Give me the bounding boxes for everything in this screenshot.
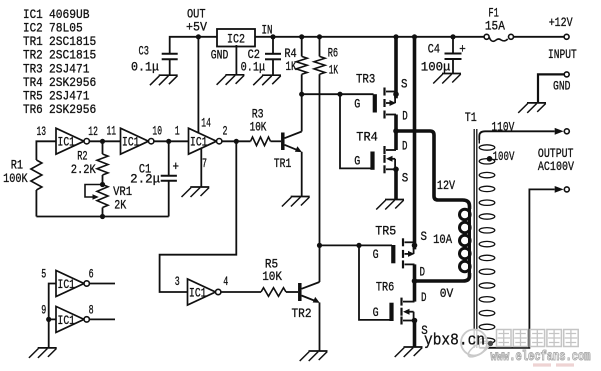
- svg-text:8: 8: [89, 302, 94, 317]
- svg-text:IN: IN: [262, 22, 273, 37]
- svg-text:AC100V: AC100V: [538, 159, 574, 174]
- svg-text:100K: 100K: [3, 171, 28, 186]
- parts list row TR6 2SK2956: [23, 102, 96, 117]
- svg-text:IC1: IC1: [58, 277, 76, 292]
- svg-text:+12V: +12V: [549, 15, 573, 30]
- terminal GND input: [564, 72, 569, 77]
- svg-text:TR6: TR6: [23, 102, 43, 117]
- svg-text:IC1: IC1: [58, 135, 76, 150]
- node IN / C2 junction: [270, 34, 275, 39]
- svg-text:C3: C3: [139, 44, 149, 59]
- svg-text:G: G: [373, 247, 379, 262]
- wire thick rail B (+12V to TR5 source): [413, 35, 417, 249]
- resistor R4: [296, 37, 307, 132]
- wire fuse to +12V terminal: [514, 36, 564, 38]
- wire +5V rail from C3 corner to IC2: [170, 37, 217, 54]
- svg-text:TR6: TR6: [376, 280, 394, 295]
- watermark elecfans logo: [461, 330, 493, 360]
- svg-text:S: S: [421, 229, 428, 244]
- svg-text:0.1μ: 0.1μ: [131, 60, 159, 75]
- arrow output terminal 2: [555, 186, 564, 193]
- node TR5 source: [412, 243, 418, 249]
- regulator IC2 box: [217, 29, 255, 47]
- wire gate bracket down to TR4: [340, 94, 371, 168]
- transistor TR2: [300, 282, 320, 351]
- wire gate D output to R5: [221, 291, 261, 293]
- capacitor C4: [445, 37, 462, 74]
- svg-text:10K: 10K: [250, 119, 267, 134]
- ground C4: [433, 74, 461, 84]
- svg-text:TR4: TR4: [356, 129, 378, 144]
- terminal output 1: [564, 129, 569, 134]
- capacitor C1: [161, 141, 177, 216]
- wire thick TR4 drain from node: [394, 131, 398, 150]
- svg-text:12: 12: [88, 124, 98, 139]
- resistor R3: [251, 137, 282, 146]
- svg-text:14: 14: [201, 115, 211, 130]
- wire TR5 TR6 gate bus: [320, 244, 393, 246]
- node +12V rail A top: [393, 34, 398, 39]
- ground TR6 source: [395, 347, 423, 357]
- wire thick drain node to transformer 0V feed: [415, 273, 470, 281]
- svg-text:0.1μ: 0.1μ: [241, 59, 266, 74]
- svg-text:G: G: [354, 97, 360, 112]
- wire pin2 node to gate D input: [160, 141, 237, 292]
- transistor TR1: [283, 132, 302, 197]
- wire thick TR3 drain to node: [394, 115, 398, 132]
- terminal output 2: [564, 187, 569, 192]
- svg-text:GND: GND: [553, 79, 571, 94]
- ground C3: [150, 75, 178, 85]
- potentiometer VR1: [85, 185, 108, 217]
- wire gate A output to gate B: [90, 140, 121, 142]
- svg-text:TR2: TR2: [292, 306, 312, 321]
- node TR3 source: [393, 91, 399, 97]
- svg-text:R6: R6: [328, 46, 338, 61]
- wire pin 14 to +5V: [197, 37, 199, 134]
- node R6 top: [317, 34, 322, 39]
- svg-text:+: +: [459, 42, 466, 57]
- node pin2 junction: [234, 139, 239, 144]
- wire gate bracket down to TR6: [359, 245, 391, 320]
- resistor R1: [31, 160, 42, 217]
- svg-text:3: 3: [175, 274, 180, 289]
- svg-text:15A: 15A: [485, 18, 505, 33]
- svg-text:TR5: TR5: [375, 224, 396, 239]
- svg-text:11: 11: [107, 124, 117, 139]
- op-amp/inverter IC1 gate D (pins 3-4): [188, 279, 221, 305]
- ground pin 7: [182, 187, 210, 197]
- svg-text:ybx8.cn: ybx8.cn: [424, 331, 485, 350]
- terminal +12V: [564, 34, 569, 39]
- wire GND terminal to ground: [538, 74, 564, 103]
- svg-text:D: D: [420, 265, 426, 280]
- svg-text:+5V: +5V: [186, 19, 207, 34]
- transformer T1 primary winding: [460, 206, 471, 274]
- parts list row TR2 2SC1815: [23, 48, 96, 63]
- node C1 junction: [166, 139, 171, 144]
- op-amp/inverter IC1 gate C (pins 1-2): [189, 128, 222, 154]
- svg-text:100V: 100V: [493, 149, 515, 164]
- watermark CJK text 电子发烧友: [497, 330, 579, 347]
- svg-text:1K: 1K: [286, 59, 297, 74]
- svg-text:10A: 10A: [433, 232, 452, 247]
- svg-text:10K: 10K: [262, 269, 282, 284]
- wire feedback bottom rail: [36, 216, 168, 218]
- op-amp/inverter IC1 gate A (pins 13-12): [56, 128, 89, 154]
- svg-text:+: +: [173, 159, 180, 174]
- node gate bracket TR3/TR4: [337, 92, 342, 97]
- svg-text:D: D: [402, 139, 408, 154]
- ground IC2: [217, 75, 245, 85]
- wire gate C output: [222, 140, 250, 142]
- wire thick TR6 drain from node: [413, 281, 417, 302]
- node gate bracket TR5/TR6: [356, 243, 361, 248]
- ground TR2 emitter: [300, 351, 328, 361]
- wire TR3 TR4 gate bus: [302, 93, 374, 95]
- op-amp/inverter IC1 gate B (pins 11-10): [121, 128, 154, 154]
- ground gates E/F: [29, 348, 57, 358]
- svg-text:GND: GND: [211, 47, 229, 62]
- svg-text:7: 7: [202, 156, 207, 171]
- parts list row TR1 2SC1815: [23, 34, 96, 49]
- resistor R2: [97, 141, 108, 184]
- svg-text:13: 13: [37, 124, 47, 139]
- svg-text:2.2K: 2.2K: [71, 162, 96, 177]
- wire gate F output stub: [90, 318, 115, 320]
- svg-text:IC1: IC1: [189, 285, 207, 300]
- parts list row TR5 2SJ471: [23, 89, 90, 104]
- wire pin13 input with R1 branch: [36, 141, 56, 160]
- resistor R6: [314, 37, 325, 282]
- svg-text:4: 4: [223, 274, 228, 289]
- svg-text:5: 5: [41, 267, 46, 282]
- transistor TR4 (N-MOSFET): [373, 146, 397, 173]
- parts list row TR4 2SK2956: [23, 75, 96, 90]
- svg-text:D: D: [402, 109, 408, 124]
- transistor TR6 (N-MOSFET): [392, 298, 415, 325]
- node R2 junction: [100, 139, 105, 144]
- svg-text:1K: 1K: [329, 63, 339, 78]
- parts list row IC2 78L05: [23, 21, 83, 36]
- decorative pink dashes: [533, 363, 574, 366]
- svg-text:IC1: IC1: [58, 313, 76, 328]
- wire +12V IN rail from IC2 to fuse: [255, 36, 484, 38]
- wire thick TR4 source to ground: [394, 169, 398, 199]
- svg-text:IC1: IC1: [122, 135, 140, 150]
- ground C2: [253, 75, 281, 85]
- capacitor C3: [162, 54, 178, 75]
- parts list row IC1 4069UB: [23, 7, 90, 22]
- node +5V (pin14 junction): [196, 34, 201, 39]
- svg-text:1: 1: [175, 124, 180, 139]
- wire gate E/F inputs to ground: [49, 284, 56, 348]
- node gate F input junction: [46, 317, 51, 322]
- ground TR1 emitter: [282, 197, 310, 207]
- node VR1 bottom junction: [100, 214, 105, 219]
- svg-text:G: G: [373, 305, 379, 320]
- node C4 top: [450, 34, 455, 39]
- wire thick TR6 source to ground: [413, 321, 417, 348]
- svg-text:IC2: IC2: [227, 31, 245, 46]
- resistor R5: [261, 288, 298, 297]
- wire secondary 110V tap to output: [479, 131, 554, 140]
- svg-text:TR1: TR1: [274, 156, 292, 171]
- svg-text:IC1: IC1: [190, 135, 208, 150]
- svg-text:10: 10: [152, 124, 162, 139]
- svg-text:0V: 0V: [440, 286, 454, 301]
- wire gate E output stub: [90, 283, 115, 285]
- node TR5/TR6 drain: [412, 278, 418, 284]
- node TR6 source: [412, 318, 418, 324]
- svg-text:TR3: TR3: [356, 72, 375, 87]
- svg-text:9: 9: [41, 302, 46, 317]
- wire thick TR5 drain to node: [413, 264, 417, 281]
- wire secondary bottom to output terminal 2: [479, 189, 554, 347]
- svg-text:100μ: 100μ: [421, 60, 451, 75]
- op-amp/inverter IC1 gate E (pins 5-6): [56, 271, 89, 297]
- node R4 top: [299, 34, 304, 39]
- svg-text:C4: C4: [428, 42, 440, 57]
- svg-text:12V: 12V: [437, 178, 455, 193]
- svg-text:G: G: [354, 154, 360, 169]
- svg-text:110V: 110V: [491, 120, 514, 135]
- ground input GND: [518, 103, 546, 113]
- node TR1 collector / R4: [299, 92, 304, 97]
- transformer T1 secondary winding: [479, 137, 495, 348]
- transistor TR3 (P-MOSFET): [375, 88, 396, 119]
- capacitor C2: [265, 37, 281, 75]
- svg-text:S: S: [402, 170, 409, 185]
- node TR3/TR4 drain: [393, 128, 399, 134]
- node TR4 source: [393, 167, 399, 173]
- arrow output terminal 1: [555, 128, 564, 135]
- svg-text:6: 6: [89, 267, 94, 282]
- node 100V tap: [487, 156, 493, 162]
- fuse F1: [484, 34, 513, 41]
- ground TR4 source: [376, 200, 404, 210]
- svg-text:2.2μ: 2.2μ: [130, 172, 160, 187]
- parts list row TR3 2SJ471: [23, 61, 90, 76]
- svg-text:T1: T1: [465, 110, 477, 125]
- wire thick rail A (+12V to TR3 source): [394, 35, 398, 98]
- wire thick drain node to transformer 12V feed: [396, 131, 470, 209]
- svg-text:2SK2956: 2SK2956: [49, 102, 96, 117]
- wire gate B output to gate C: [154, 140, 188, 142]
- svg-text:www.elecfans.com: www.elecfans.com: [491, 350, 591, 365]
- transistor TR5 (P-MOSFET): [393, 238, 414, 268]
- transformer T1 core: [474, 129, 477, 348]
- wire pin 7 to ground: [200, 148, 202, 187]
- svg-text:D: D: [421, 290, 427, 305]
- node +12V rail B top: [412, 34, 417, 39]
- node VR1 top junction: [100, 182, 105, 187]
- wire IC2 GND pin: [235, 45, 237, 75]
- svg-text:2K: 2K: [114, 198, 126, 213]
- svg-text:2: 2: [223, 124, 228, 139]
- node TR2 collector / TR5 TR6 gate bus: [317, 243, 322, 248]
- svg-text:S: S: [401, 77, 408, 92]
- op-amp/inverter IC1 gate F (pins 9-8): [56, 306, 89, 332]
- svg-text:INPUT: INPUT: [548, 47, 577, 62]
